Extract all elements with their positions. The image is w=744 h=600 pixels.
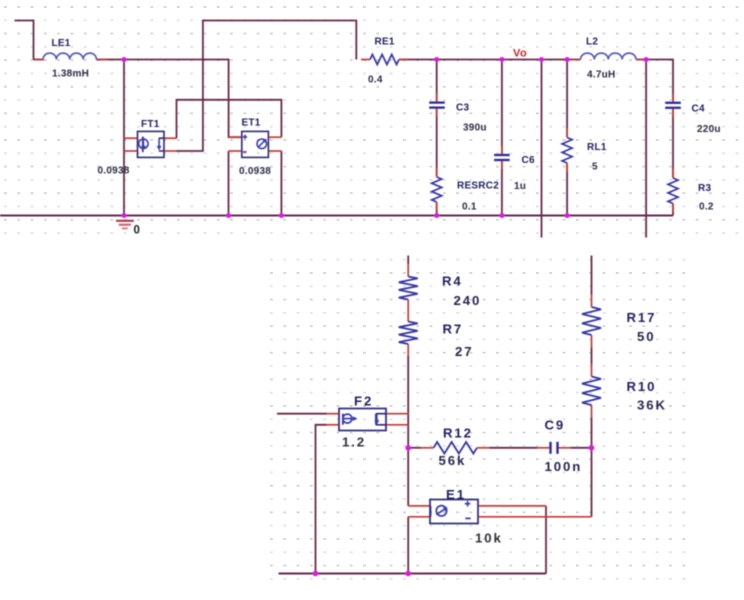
svg-text:100n: 100n <box>545 459 583 474</box>
wire L2 right to C4 corner <box>636 60 673 103</box>
pin C6 top <box>501 146 503 154</box>
svg-text:56k: 56k <box>439 453 467 468</box>
pin E1 right lower <box>478 516 592 518</box>
svg-text:F2: F2 <box>354 394 373 409</box>
wire R17 top feed <box>591 256 593 295</box>
svg-text:0: 0 <box>134 225 140 237</box>
svg-text:5: 5 <box>592 162 598 173</box>
pin FT1 left upper <box>124 137 138 139</box>
svg-text:27: 27 <box>455 344 473 359</box>
wire LE1 to node and on to ET1 drop <box>97 60 243 138</box>
pin ET1 right lower <box>268 150 281 152</box>
pin FT1 right lower <box>164 150 177 152</box>
pin E1 left upper <box>408 505 430 507</box>
wire ET1 lower-right to ground <box>280 151 282 216</box>
pin R12 left <box>421 447 434 449</box>
wire R3 bottom to rail <box>672 204 674 216</box>
pin RL1 bottom <box>566 163 568 172</box>
junction bottom rail E1 <box>405 571 411 577</box>
pin RESRC2 bottom <box>436 202 438 211</box>
controlled source ET1 <box>242 131 269 157</box>
pin RL1 top <box>566 129 568 138</box>
wire C4 to R3 <box>672 108 674 178</box>
wire E1 plus output down to rail <box>545 506 547 574</box>
bottom ground rail <box>279 573 547 575</box>
svg-text:0.0938: 0.0938 <box>98 166 130 177</box>
pin LE1 right <box>96 59 107 61</box>
wire R10 down to E1 lower-right level <box>591 418 593 517</box>
grid top section <box>2 2 744 238</box>
grid bottom section <box>262 252 690 590</box>
junction R12 left node <box>405 445 411 451</box>
pin F2 left lower <box>327 424 340 426</box>
pin R4 top <box>407 264 409 277</box>
wire LE1 left <box>34 59 45 61</box>
junction ground at FT1 rail <box>121 213 126 218</box>
transformer source FT1 <box>138 131 165 157</box>
resistor R17 <box>582 307 601 335</box>
pin ET1 left upper <box>229 136 242 138</box>
capacitor C9 <box>551 442 558 454</box>
resistor RESRC2 <box>432 177 442 202</box>
capacitor C4 <box>665 103 681 108</box>
pin C9 right <box>559 447 571 449</box>
pin RE1 left <box>361 59 370 61</box>
pin F2 left upper <box>327 413 340 415</box>
pin F2 right upper <box>386 413 408 415</box>
pin R10 bottom <box>591 405 593 418</box>
junction C6 top node <box>499 57 504 62</box>
svg-text:0.1: 0.1 <box>462 202 477 213</box>
svg-text:Vo: Vo <box>513 48 527 60</box>
pin R12 right <box>477 447 490 449</box>
svg-text:C6: C6 <box>522 155 535 166</box>
pin C6 bottom <box>501 161 503 169</box>
pin RESRC2 top <box>436 168 438 177</box>
pin LE1 left <box>35 59 44 61</box>
wire C6 branch top <box>501 60 503 155</box>
pin C4 top <box>672 94 674 102</box>
wire F2 lower-left to rail <box>316 425 327 574</box>
junction L2 right node <box>644 57 649 62</box>
svg-text:36K: 36K <box>637 398 667 413</box>
svg-text:4.7uH: 4.7uH <box>587 70 615 81</box>
svg-text:10k: 10k <box>475 531 503 546</box>
wire Vo drop to lower edge <box>541 60 543 238</box>
wire R12 left lead-in <box>408 447 421 449</box>
junction LE1 output node <box>121 57 126 62</box>
svg-text:FT1: FT1 <box>141 119 160 130</box>
junction RL1 top node <box>565 57 570 62</box>
pin C9 left <box>538 447 550 449</box>
controlled source F2 <box>339 409 386 431</box>
wire RE1 right to L2 <box>399 59 581 61</box>
junction C3 top node <box>434 57 439 62</box>
pin R17 top <box>591 295 593 308</box>
junction ground C6 <box>499 213 504 218</box>
svg-text:0.0938: 0.0938 <box>239 166 271 177</box>
wire R7 to F2 <box>407 356 409 414</box>
svg-text:RE1: RE1 <box>375 37 395 48</box>
pin L2 left <box>572 59 581 61</box>
pin E1 right upper <box>478 505 546 507</box>
ground rail <box>0 215 673 217</box>
pin C4 bottom <box>672 108 674 117</box>
wire C9 to right rail <box>571 447 592 449</box>
pin L2 right <box>636 59 645 61</box>
svg-text:C9: C9 <box>545 418 566 433</box>
svg-text:1u: 1u <box>514 181 526 192</box>
svg-text:0.4: 0.4 <box>368 75 383 86</box>
wire C3 branch top <box>436 60 438 103</box>
junction bottom rail F2 <box>313 571 319 577</box>
junction ground ET1 left <box>226 213 231 218</box>
svg-text:50: 50 <box>637 329 655 344</box>
ground 0 <box>116 221 134 229</box>
svg-text:R3: R3 <box>698 183 711 194</box>
wire FT1 upper-right to ET1 upper-right <box>177 100 282 138</box>
wire E1 lower-left down to rail <box>407 517 409 574</box>
svg-text:C3: C3 <box>456 103 469 114</box>
svg-text:240: 240 <box>454 293 482 308</box>
wire C6 to rail <box>501 161 503 216</box>
pin R10 top <box>591 364 593 377</box>
junction ground ET1 right <box>279 213 284 218</box>
pin FT1 right upper <box>164 137 177 139</box>
svg-text:RL1: RL1 <box>587 142 607 153</box>
wire node down left rail <box>123 60 125 216</box>
resistor R7 <box>399 322 418 345</box>
pin RE1 right <box>399 59 408 61</box>
resistor R10 <box>582 377 601 406</box>
svg-text:LE1: LE1 <box>52 38 71 49</box>
wire FT1 lower-right up over to RE1 <box>177 21 357 152</box>
capacitor C3 <box>429 103 445 108</box>
wire ET1 lower-left to ground <box>228 151 230 216</box>
pin C3 top <box>436 94 438 103</box>
wire R4 top feed <box>407 256 409 265</box>
svg-text:1.38mH: 1.38mH <box>52 69 89 80</box>
junction ground RL1 <box>565 213 570 218</box>
svg-text:RESRC2: RESRC2 <box>457 181 499 192</box>
pin R4 bottom / R7 top <box>407 300 409 322</box>
pin ET1 left lower <box>229 150 242 152</box>
junction ground RESRC2 <box>434 213 439 218</box>
wire C3 to RESRC2 <box>436 108 438 177</box>
wire R12 to C9 <box>490 447 538 449</box>
junction C9 right node <box>589 445 595 451</box>
wire RL1 to rail <box>566 163 568 216</box>
pin R3 top <box>672 169 674 178</box>
svg-text:R4: R4 <box>442 274 463 289</box>
svg-text:C4: C4 <box>692 104 705 115</box>
wire RL1 branch <box>566 60 568 138</box>
controlled source E1 <box>430 500 478 524</box>
svg-text:R10: R10 <box>627 379 657 394</box>
svg-text:ET1: ET1 <box>242 118 261 129</box>
capacitor C6 <box>494 155 510 160</box>
wire L2 node drop to lower edge <box>645 60 647 238</box>
pin F2 right lower <box>386 424 408 426</box>
svg-text:E1: E1 <box>446 487 466 502</box>
inductor LE1 <box>43 53 97 59</box>
wire RESRC2 to rail <box>436 202 438 216</box>
svg-text:L2: L2 <box>586 37 598 48</box>
pin C3 bottom <box>436 108 438 117</box>
pin R7 bottom <box>407 344 409 356</box>
svg-text:0.2: 0.2 <box>699 202 714 213</box>
wire input stub top-left <box>15 21 34 60</box>
wire F2 right down to E1 upper-left <box>407 414 409 506</box>
pin R3 bottom <box>672 204 674 213</box>
resistor RE1 <box>370 55 399 65</box>
pin FT1 left lower <box>124 150 138 152</box>
svg-text:1.2: 1.2 <box>342 435 366 450</box>
svg-text:R7: R7 <box>443 322 464 337</box>
resistor R4 <box>399 277 418 300</box>
inductor L2 <box>581 53 637 59</box>
wire F2 left input stub <box>277 413 327 415</box>
svg-text:R17: R17 <box>627 310 657 325</box>
resistor RL1 <box>562 138 572 163</box>
resistor R3 <box>668 178 678 203</box>
svg-text:R12: R12 <box>443 426 473 441</box>
pin R17 bottom <box>591 335 593 348</box>
svg-text:220u: 220u <box>697 124 721 135</box>
resistor R12 <box>434 442 477 454</box>
pin ET1 right upper <box>268 136 281 138</box>
wire R17 to R10 <box>591 348 593 365</box>
junction Vo tap node <box>539 57 544 62</box>
svg-text:390u: 390u <box>463 123 487 134</box>
pin E1 left lower <box>408 516 430 518</box>
